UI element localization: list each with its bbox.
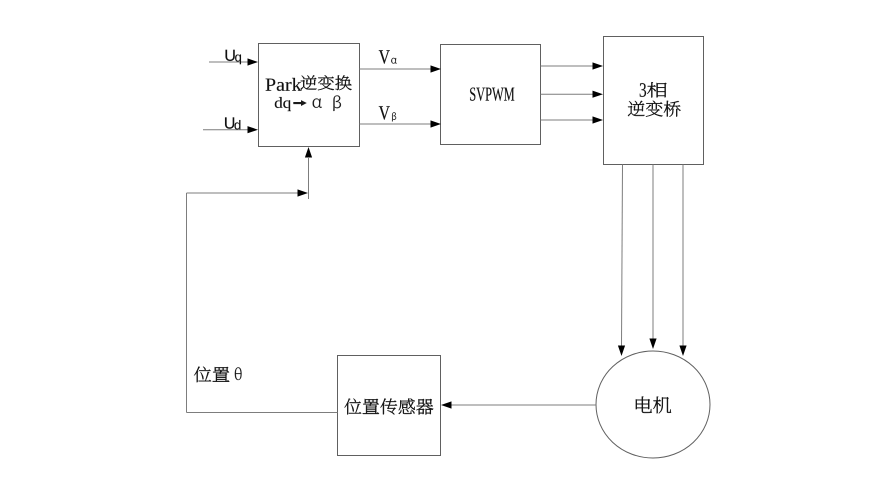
glyph arrow in dq formula xyxy=(293,100,307,106)
wire pwm2 xyxy=(541,93,594,95)
label Uq U xyxy=(226,50,235,61)
wire Uq input xyxy=(209,61,248,63)
arrowhead Uq into Park xyxy=(248,58,259,65)
text beta xyxy=(333,96,341,112)
text SVPWM xyxy=(470,88,514,101)
wire pwm3 xyxy=(541,119,594,121)
text 逆变桥 xyxy=(628,101,681,117)
label Ud U xyxy=(225,117,234,128)
text 3 xyxy=(640,83,646,97)
text dq xyxy=(275,97,291,111)
block: Park inverse transform box xyxy=(259,44,360,147)
arrowhead phase B into motor xyxy=(649,339,656,350)
arrowhead pwm2 into bridge xyxy=(593,91,604,98)
text theta xyxy=(235,367,242,380)
text 位置传感器 xyxy=(345,399,434,415)
wire Valpha xyxy=(360,68,432,70)
wire Vbeta xyxy=(360,123,432,125)
wire sensor output left xyxy=(187,412,338,414)
wire pwm1 xyxy=(541,65,594,67)
wire motor to sensor xyxy=(451,404,596,406)
text Park xyxy=(266,78,302,91)
wire feedback vertical up xyxy=(186,193,188,413)
label Uq q xyxy=(235,55,241,65)
wire phase B down xyxy=(652,165,654,339)
arrowhead feedback corner xyxy=(298,189,309,196)
block: position sensor box xyxy=(338,356,441,456)
label Vb b xyxy=(392,112,396,121)
wire feedback up into Park xyxy=(308,158,310,199)
label Va a xyxy=(391,58,397,64)
text 电机 xyxy=(636,397,671,414)
block: motor circle xyxy=(596,351,710,458)
arrowhead pwm3 into bridge xyxy=(593,116,604,123)
arrowhead pwm1 into bridge xyxy=(593,62,604,69)
label Va V xyxy=(379,50,390,64)
text alpha xyxy=(313,99,322,108)
text 逆变换 xyxy=(301,75,352,90)
label Vb V xyxy=(379,106,390,120)
arrowhead Ud into Park xyxy=(248,126,259,133)
text 位置 xyxy=(194,367,229,383)
block: SVPWM box xyxy=(441,45,541,145)
arrowhead Vbeta into SVPWM xyxy=(431,120,442,127)
wire phase A down xyxy=(622,165,623,346)
arrowhead into Park bottom xyxy=(305,147,312,158)
wire phase C down xyxy=(682,165,684,346)
arrowhead phase C into motor xyxy=(679,346,686,357)
arrowhead into sensor xyxy=(441,401,452,408)
wire feedback horizontal right xyxy=(187,192,299,194)
text 相 xyxy=(647,82,666,97)
block: 3-phase inverter bridge box xyxy=(604,37,704,165)
arrowhead phase A into motor xyxy=(618,346,625,357)
label Ud d xyxy=(235,120,241,130)
arrowhead Valpha into SVPWM xyxy=(431,65,442,72)
wire Ud input xyxy=(203,129,248,131)
